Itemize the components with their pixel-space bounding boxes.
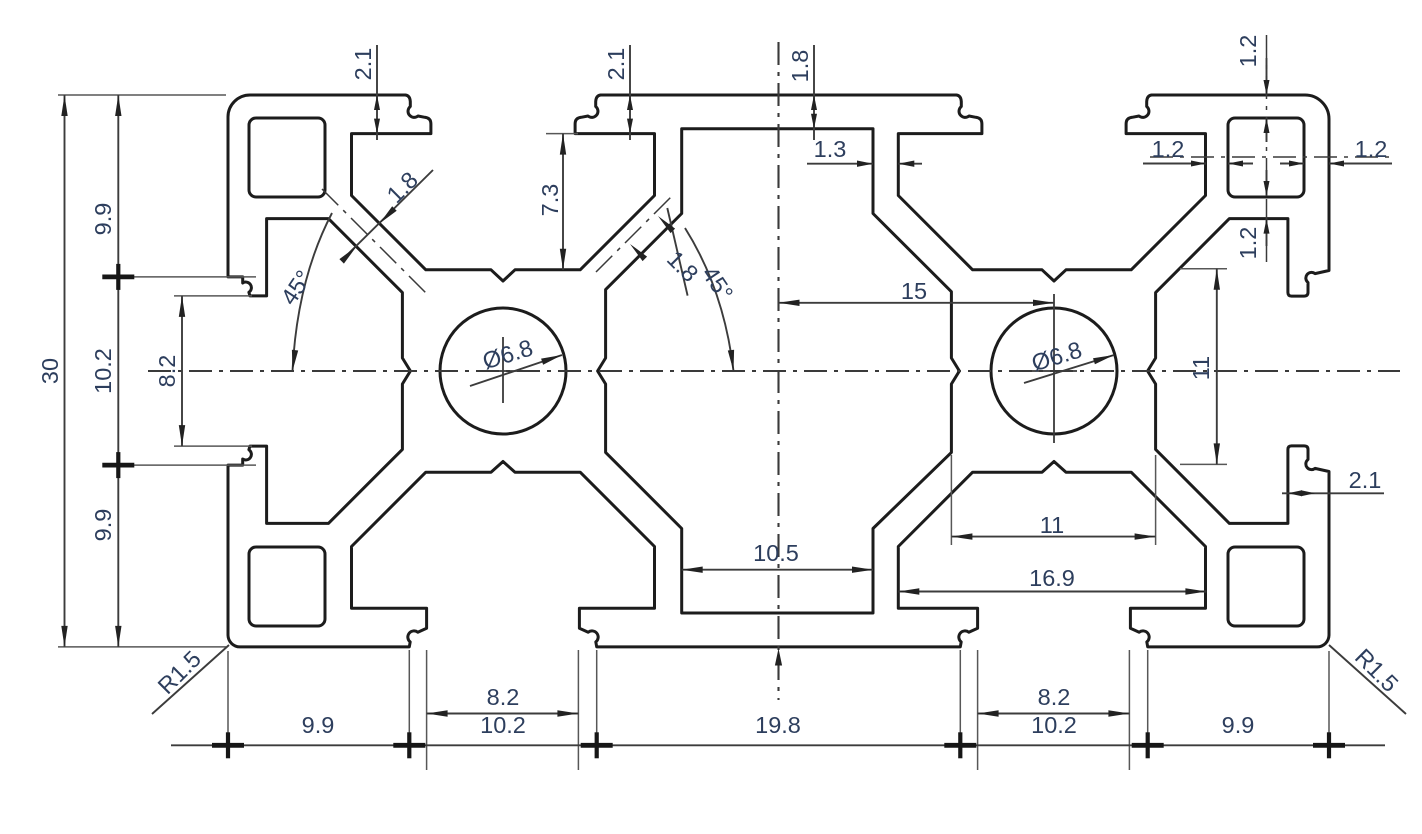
svg-text:2.1: 2.1 xyxy=(350,48,376,81)
dimension 1.2 top xyxy=(1235,35,1270,142)
aluminium profile outer boundary xyxy=(228,95,1329,647)
svg-text:10.2: 10.2 xyxy=(1031,712,1077,738)
svg-text:11: 11 xyxy=(1188,356,1214,380)
rib axis M1 NW xyxy=(322,189,430,297)
leader R1.5 bottom-left xyxy=(152,645,229,714)
svg-text:8.2: 8.2 xyxy=(487,684,520,710)
svg-text:2.1: 2.1 xyxy=(1349,467,1382,493)
svg-text:30: 30 xyxy=(37,358,63,384)
angle dimension 45 left xyxy=(276,213,332,371)
svg-text:1.2: 1.2 xyxy=(1235,227,1261,260)
leader R1.5 bottom-right xyxy=(1329,644,1406,714)
angle dimension 45 right xyxy=(685,228,738,371)
svg-text:1.8: 1.8 xyxy=(662,246,703,287)
svg-text:8.2: 8.2 xyxy=(154,355,180,388)
svg-text:Ø6.8: Ø6.8 xyxy=(479,334,535,374)
dimension 1.3 xyxy=(807,136,922,167)
svg-text:9.9: 9.9 xyxy=(90,509,116,542)
svg-text:9.9: 9.9 xyxy=(1222,712,1255,738)
central cavity xyxy=(598,129,960,613)
bore hole M2 Ø6.8 xyxy=(991,308,1117,434)
leader Ø6.8 M2 xyxy=(1024,336,1114,383)
corner screw channel top-left xyxy=(249,118,325,197)
dimension chain 9.9/10.2/9.9 left xyxy=(90,95,134,647)
corner screw channel bottom-right xyxy=(1228,547,1304,626)
dimension 8.2 bottom M1 xyxy=(427,650,579,770)
rib axis M1 NE xyxy=(596,195,673,272)
svg-text:9.9: 9.9 xyxy=(302,712,335,738)
dimension 7.3 xyxy=(537,134,578,270)
dimension chain 9.9/10.2/19.8/10.2/9.9 bottom xyxy=(171,712,1385,758)
dimension 1.8 rib M1 NE xyxy=(630,208,703,296)
dimension 8.2 left xyxy=(154,296,185,446)
dimension 16.9 xyxy=(898,565,1206,595)
svg-text:16.9: 16.9 xyxy=(1029,565,1075,591)
bore M2 cross xyxy=(1031,294,1077,443)
dimension 1.8 top wall xyxy=(787,45,817,140)
dimension 1.8 rib M1 NW xyxy=(339,167,433,264)
svg-text:1.8: 1.8 xyxy=(382,167,423,208)
dimension 2.1 right lip xyxy=(1282,467,1384,496)
svg-text:1.8: 1.8 xyxy=(787,50,813,83)
dimension 11 right xyxy=(1180,269,1227,465)
svg-text:1.2: 1.2 xyxy=(1355,136,1388,162)
svg-text:2.1: 2.1 xyxy=(603,48,629,81)
leader Ø6.8 M1 xyxy=(470,334,562,386)
dimension 15 xyxy=(779,278,1055,306)
dimension 1.2 below square xyxy=(1235,170,1270,259)
dimension 1.2 right of square xyxy=(1280,136,1392,167)
svg-text:19.8: 19.8 xyxy=(755,712,801,738)
vertical centreline xyxy=(777,42,779,700)
extension lines bottom chain xyxy=(228,650,1329,752)
dimension 2.1 second xyxy=(603,45,633,140)
bore hole M1 Ø6.8 xyxy=(440,308,566,434)
svg-text:1.2: 1.2 xyxy=(1152,136,1185,162)
svg-text:10.2: 10.2 xyxy=(90,348,116,394)
square TR centrelines xyxy=(1150,35,1395,262)
dimension 11 bottom xyxy=(951,455,1155,545)
dimension 30 xyxy=(37,95,68,647)
dimension 2.1 first xyxy=(350,45,380,140)
bore M1 cross xyxy=(477,337,529,403)
svg-text:45°: 45° xyxy=(276,266,317,310)
corner screw channel bottom-left xyxy=(249,547,325,626)
corner screw channel top-right xyxy=(1228,118,1304,197)
dimension 10.5 xyxy=(682,540,873,573)
dimension 8.2 bottom M2 xyxy=(978,650,1130,770)
horizontal centreline xyxy=(148,370,1400,372)
extension lines left xyxy=(58,95,256,647)
svg-text:1.3: 1.3 xyxy=(814,136,847,162)
svg-text:1.2: 1.2 xyxy=(1235,35,1261,68)
svg-text:8.2: 8.2 xyxy=(1038,684,1071,710)
svg-text:9.9: 9.9 xyxy=(90,203,116,236)
svg-text:10.5: 10.5 xyxy=(753,540,799,566)
svg-text:10.2: 10.2 xyxy=(480,712,526,738)
svg-text:11: 11 xyxy=(1040,512,1064,538)
arrow marker at bottom centreline xyxy=(775,649,782,666)
svg-text:15: 15 xyxy=(901,278,927,304)
dimension 1.2 left of square xyxy=(1143,136,1253,167)
svg-text:7.3: 7.3 xyxy=(537,184,563,217)
